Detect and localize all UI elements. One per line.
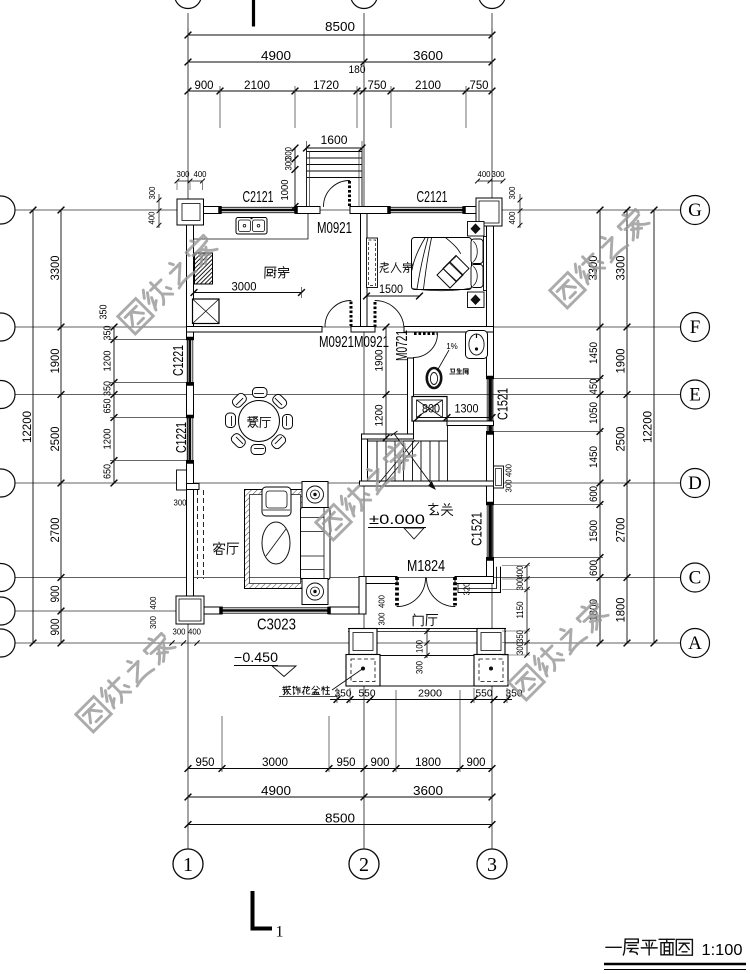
svg-text:G: G <box>688 200 702 221</box>
svg-text:4900: 4900 <box>261 48 291 63</box>
title 一层平面图 1:100 <box>606 939 693 955</box>
svg-text:800: 800 <box>422 404 440 416</box>
dim 1900/1200 dining <box>385 327 387 438</box>
svg-text:2100: 2100 <box>244 78 270 92</box>
label 门厅 <box>413 614 438 626</box>
svg-text:300: 300 <box>177 169 190 179</box>
svg-text:350: 350 <box>102 381 114 396</box>
svg-text:12200: 12200 <box>641 411 655 443</box>
svg-text:400: 400 <box>478 169 491 179</box>
svg-text:1:100: 1:100 <box>702 942 743 959</box>
west wall segments <box>187 207 194 340</box>
wash basin <box>466 331 488 359</box>
svg-text:350: 350 <box>99 304 110 319</box>
label 卫生间 <box>450 368 468 374</box>
leader + label 装饰花盆柱 <box>332 669 363 691</box>
window C2121 left <box>221 206 296 208</box>
label 玄关 <box>429 503 453 515</box>
porch column top-right <box>477 629 505 655</box>
svg-text:400: 400 <box>146 211 156 224</box>
svg-text:1500: 1500 <box>379 284 403 296</box>
porch column top-left <box>349 629 377 655</box>
svg-text:900: 900 <box>48 618 62 635</box>
bed headboard <box>484 237 487 291</box>
svg-text:900: 900 <box>467 755 486 769</box>
dining chairs <box>253 388 268 398</box>
corner wrap bottom-right (L) <box>458 567 501 593</box>
svg-text:3000: 3000 <box>232 282 257 294</box>
hall south wall <box>359 577 397 584</box>
dim 3000 kitchen <box>194 292 302 294</box>
svg-text:300: 300 <box>515 642 525 655</box>
L1 mark bottom-left <box>251 891 255 931</box>
svg-text:1720: 1720 <box>313 78 339 92</box>
left axis circles (unlabelled) <box>0 196 15 224</box>
corner pier top-right <box>476 198 502 226</box>
dim 1600 <box>307 147 363 149</box>
svg-text:400: 400 <box>194 169 207 179</box>
svg-text:3600: 3600 <box>413 783 443 798</box>
svg-text:C2121: C2121 <box>243 189 274 206</box>
bed <box>412 238 472 290</box>
svg-text:1500: 1500 <box>588 520 600 542</box>
flue box bathroom <box>412 397 447 422</box>
svg-text:600: 600 <box>588 560 600 576</box>
top axis circles (clipped) <box>175 0 202 9</box>
dim 1500 bedroom <box>367 295 420 297</box>
svg-text:1000: 1000 <box>279 179 291 200</box>
label 厨房 <box>265 267 289 279</box>
window C1521 bathroom (dark) <box>486 379 488 432</box>
wardrobe <box>367 238 378 288</box>
svg-text:1200: 1200 <box>373 405 385 427</box>
svg-text:300: 300 <box>173 626 186 636</box>
carpet/tv area hatched border <box>245 490 306 589</box>
bed quilt folds <box>417 238 428 289</box>
svg-text:1050: 1050 <box>588 402 600 424</box>
bottom axis circles <box>173 849 203 879</box>
svg-text:950: 950 <box>196 755 215 769</box>
svg-text:1: 1 <box>276 924 284 941</box>
svg-text:M0921M0921: M0921M0921 <box>319 334 389 351</box>
svg-text:1900: 1900 <box>48 348 62 373</box>
svg-text:400: 400 <box>376 595 386 608</box>
section mark top <box>252 0 255 27</box>
window C3023 <box>222 607 329 609</box>
svg-text:1900: 1900 <box>373 350 385 372</box>
kitchen sink <box>236 218 267 235</box>
coffee table oval <box>262 522 290 564</box>
svg-text:100: 100 <box>415 640 425 653</box>
svg-text:550: 550 <box>476 688 493 700</box>
svg-text:1%: 1% <box>446 342 458 351</box>
porch pot column bottom-right <box>474 655 508 687</box>
top dimension rows <box>188 34 492 36</box>
entry steps top <box>307 151 363 153</box>
corner pier top-left <box>177 199 204 225</box>
kitchen stove (hatched) <box>195 253 213 284</box>
svg-text:600: 600 <box>588 486 600 502</box>
kitchen/bedroom divider wall <box>361 214 368 327</box>
stair west wall <box>362 439 368 481</box>
right dimension columns <box>599 210 601 643</box>
living/dining wall stub <box>187 484 200 490</box>
porch slab lines <box>348 628 506 630</box>
svg-text:1800: 1800 <box>614 597 628 622</box>
label 客厅 <box>214 542 239 554</box>
svg-text:E: E <box>689 385 701 406</box>
svg-text:3300: 3300 <box>614 255 628 280</box>
porch dimension row <box>330 699 512 701</box>
window C1221 upper <box>186 340 188 383</box>
window C2121 right <box>390 206 464 208</box>
svg-text:300: 300 <box>147 186 157 199</box>
label 老人房 <box>380 262 413 272</box>
window C1221 lower <box>186 418 188 461</box>
svg-text:2500: 2500 <box>48 426 62 451</box>
bottom dimension rows <box>188 768 492 770</box>
svg-text:900: 900 <box>48 585 62 602</box>
svg-text:M1824: M1824 <box>407 558 445 575</box>
svg-text:3600: 3600 <box>413 48 443 63</box>
svg-text:350: 350 <box>102 325 114 340</box>
axis grid lines <box>187 13 189 849</box>
bed pillows <box>471 239 483 264</box>
svg-text:300: 300 <box>492 169 505 179</box>
sofa <box>301 507 331 580</box>
svg-text:400: 400 <box>507 211 517 224</box>
north wall segments <box>187 207 222 214</box>
svg-text:A: A <box>688 633 702 654</box>
stair south wall <box>360 481 494 486</box>
svg-text:300: 300 <box>148 616 158 629</box>
svg-text:3: 3 <box>487 854 497 876</box>
stair treads <box>368 440 448 442</box>
svg-text:M0721: M0721 <box>394 330 411 361</box>
window C1521 hall (dark) <box>486 505 488 558</box>
svg-text:2900: 2900 <box>418 688 442 700</box>
corner pier bottom-left <box>176 596 204 624</box>
svg-text:C1221: C1221 <box>173 422 190 453</box>
svg-text:3300: 3300 <box>48 255 62 280</box>
svg-text:F: F <box>690 317 701 338</box>
svg-text:400: 400 <box>148 596 158 609</box>
svg-text:550: 550 <box>359 688 376 700</box>
east wall pier bump <box>494 466 504 488</box>
window jamb caps <box>219 207 222 214</box>
svg-text:400: 400 <box>503 464 513 477</box>
landing north wall <box>447 421 494 426</box>
door M0721 (leaf+arc) <box>414 332 438 335</box>
plant stand upper <box>302 482 328 508</box>
svg-text:750: 750 <box>368 78 387 92</box>
svg-text:2700: 2700 <box>48 517 62 542</box>
bed diamond blanket <box>443 256 469 282</box>
svg-text:C2121: C2121 <box>417 189 448 206</box>
door M0921 top (leaf+arc) <box>348 181 351 206</box>
svg-text:1450: 1450 <box>588 446 600 468</box>
svg-text:350: 350 <box>515 630 525 643</box>
svg-text:650: 650 <box>102 398 114 413</box>
svg-text:300: 300 <box>415 661 425 674</box>
curtain dashed lines <box>197 490 199 579</box>
nightstand lower <box>468 292 485 308</box>
svg-text:900: 900 <box>195 78 214 92</box>
svg-text:1200: 1200 <box>102 428 114 449</box>
svg-text:1600: 1600 <box>321 133 348 147</box>
svg-text:950: 950 <box>337 755 356 769</box>
svg-text:1200: 1200 <box>102 350 114 371</box>
armchair <box>262 487 291 516</box>
svg-text:300: 300 <box>515 578 525 591</box>
svg-text:1150: 1150 <box>515 602 525 619</box>
svg-text:C1521: C1521 <box>494 388 511 420</box>
svg-text:400: 400 <box>515 566 525 579</box>
nightstand upper <box>468 222 485 237</box>
door M0921 bedroom (leaf+arc) <box>374 302 377 329</box>
svg-text:1: 1 <box>183 854 193 876</box>
svg-text:8500: 8500 <box>325 811 355 826</box>
stair hall wall <box>362 434 414 439</box>
dim 300/300/1000 left of steps <box>294 148 296 207</box>
svg-text:3000: 3000 <box>262 755 288 769</box>
svg-text:2500: 2500 <box>614 426 628 451</box>
porch pot column bottom-left <box>346 655 380 687</box>
left dimension columns <box>32 210 34 643</box>
porch right dims <box>526 566 528 656</box>
svg-text:300: 300 <box>283 158 294 171</box>
plant stand lower <box>302 579 328 605</box>
svg-text:4900: 4900 <box>261 783 291 798</box>
svg-text:900: 900 <box>371 755 390 769</box>
svg-text:180: 180 <box>349 64 366 76</box>
svg-text:M0921: M0921 <box>317 220 352 237</box>
west wall pier bump <box>177 470 187 490</box>
svg-text:2: 2 <box>359 854 369 876</box>
svg-text:C1221: C1221 <box>170 345 187 376</box>
svg-text:12200: 12200 <box>20 411 34 443</box>
svg-text:300: 300 <box>376 612 386 625</box>
kitchen counter <box>194 214 309 240</box>
svg-text:2100: 2100 <box>415 78 441 92</box>
svg-text:1300: 1300 <box>455 404 479 416</box>
kitchen flue box <box>193 299 220 324</box>
svg-text:300: 300 <box>174 497 187 507</box>
bathroom west wall <box>408 358 414 439</box>
svg-text:D: D <box>688 473 702 494</box>
east wall segments <box>487 207 494 379</box>
svg-text:−0.450: −0.450 <box>234 650 278 665</box>
F-line interior wall <box>187 327 323 333</box>
svg-text:450: 450 <box>588 379 600 395</box>
svg-text:8500: 8500 <box>325 19 355 34</box>
svg-text:300: 300 <box>507 186 517 199</box>
door M0921 kitchen (leaf+arc) <box>350 302 353 327</box>
svg-text:650: 650 <box>102 464 114 479</box>
south wall living room <box>187 607 223 614</box>
svg-text:1450: 1450 <box>588 342 600 364</box>
svg-text:1900: 1900 <box>614 348 628 373</box>
svg-text:750: 750 <box>470 78 489 92</box>
svg-text:320: 320 <box>461 582 471 595</box>
toilet <box>427 368 441 388</box>
door M1824 double (leaves+arcs) <box>395 577 399 606</box>
svg-text:400: 400 <box>188 626 201 636</box>
svg-text:2700: 2700 <box>614 517 628 542</box>
stair up arrow <box>394 434 435 490</box>
hall west wall <box>359 577 366 615</box>
dining table <box>239 401 280 442</box>
dims 100/300 porch <box>426 629 428 658</box>
svg-text:C1521: C1521 <box>468 512 485 546</box>
dims 800 / 1300 <box>418 417 492 419</box>
stair break line <box>379 440 415 483</box>
right axis circles <box>680 209 681 211</box>
watermarks 图纸之家 <box>117 232 219 334</box>
svg-text:C3023: C3023 <box>257 617 296 634</box>
svg-text:1800: 1800 <box>415 755 441 769</box>
svg-text:300: 300 <box>503 479 513 492</box>
svg-text:C: C <box>689 568 702 589</box>
label 餐厅 <box>248 417 271 428</box>
svg-text:±0.000: ±0.000 <box>369 512 425 527</box>
